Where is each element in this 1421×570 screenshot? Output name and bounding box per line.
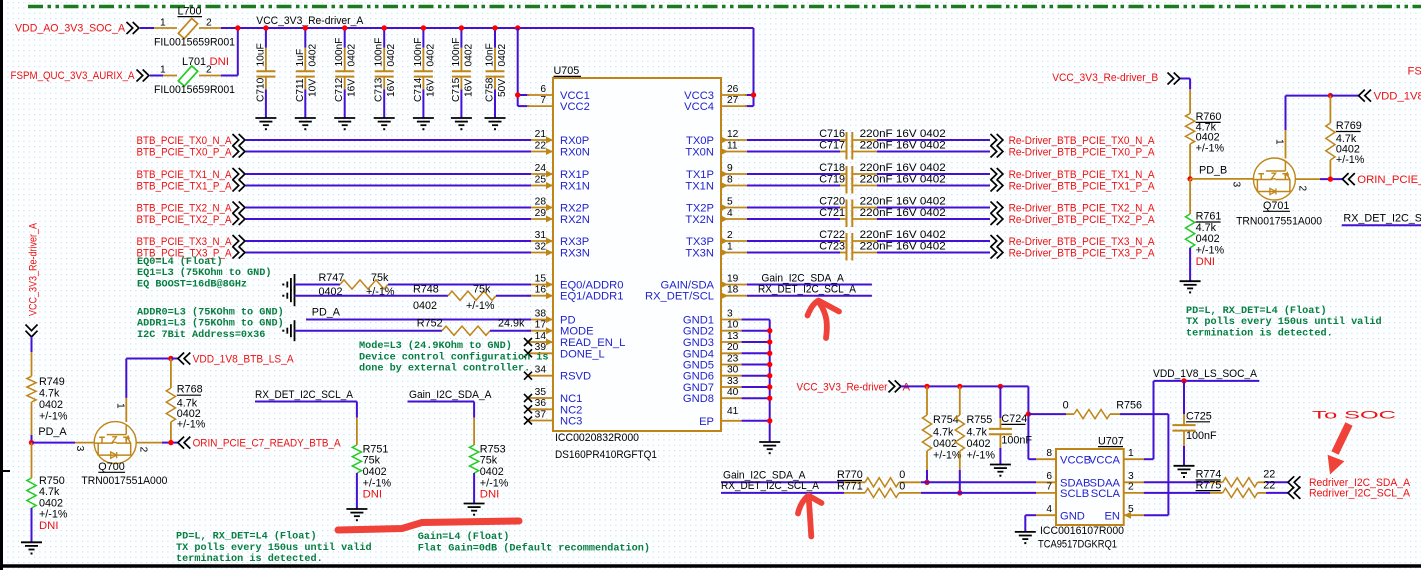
U705 pin 32 RX3N [527, 241, 590, 259]
U705 pin 10 GND2 [683, 320, 742, 338]
junction rail/C714 [421, 25, 426, 30]
svg-text:VCC2: VCC2 [560, 101, 590, 113]
svg-text:Re-Driver_BTB_PCIE_TX0_P_A: Re-Driver_BTB_PCIE_TX0_P_A [1009, 146, 1155, 158]
svg-text:220nF 16V 0402: 220nF 16V 0402 [860, 140, 946, 152]
svg-text:NC2: NC2 [560, 404, 582, 416]
wire R771 to SCLB [899, 492, 921, 494]
svg-text:Re-Driver_BTB_PCIE_TX2_N_A: Re-Driver_BTB_PCIE_TX2_N_A [1009, 202, 1155, 214]
svg-text:100nF: 100nF [451, 38, 462, 67]
U707 pin 3 SDAA [1090, 471, 1144, 489]
svg-text:RX1P: RX1P [560, 169, 589, 181]
wire to off-page VDD_1V8_BTB_LS_A [171, 358, 178, 360]
wire VDD_1V8_LS_SOC_A [1154, 380, 1260, 382]
wire to off-page VDD_1V8 [1330, 95, 1358, 97]
svg-text:READ_EN_L: READ_EN_L [560, 337, 625, 349]
svg-text:1: 1 [160, 65, 166, 76]
svg-text:Re-Driver_BTB_PCIE_TX0_N_A: Re-Driver_BTB_PCIE_TX0_N_A [1009, 135, 1155, 147]
svg-text:RX_DET/SCL: RX_DET/SCL [645, 291, 714, 303]
ground (rotated) for EQ1 [282, 285, 294, 306]
U705 pin 38 PD [527, 308, 576, 326]
svg-text:Q700: Q700 [98, 461, 124, 473]
U705 pin 18 RX_DET/SCL [645, 285, 747, 303]
svg-text:Flat Gain=0dB (Default recomme: Flat Gain=0dB (Default recommendation) [418, 542, 650, 554]
off-page connector Redriver_I2C_SCL_A [1288, 487, 1300, 499]
wire TX to C717 [747, 151, 840, 153]
svg-text:TRN0017551A000: TRN0017551A000 [1236, 215, 1322, 227]
svg-text:R747: R747 [319, 272, 345, 284]
svg-text:220nF 16V 0402: 220nF 16V 0402 [860, 196, 946, 208]
svg-text:done by external controller.: done by external controller. [359, 363, 530, 375]
svg-text:ICC0016107R000: ICC0016107R000 [1040, 525, 1124, 537]
ground under C758 [485, 118, 506, 130]
svg-text:220nF 16V 0402: 220nF 16V 0402 [860, 207, 946, 219]
svg-text:DONE_L: DONE_L [560, 348, 605, 360]
wire BTB_PCIE_TX3_P_A to U705 [246, 252, 532, 254]
junction R755 top [957, 384, 962, 389]
resistor R774 (22 ohm) [1196, 469, 1276, 487]
svg-text:RX_DET_I2C_SCL_A: RX_DET_I2C_SCL_A [255, 389, 354, 401]
svg-text:8: 8 [727, 174, 733, 185]
svg-text:RX_DET_I2C_SCL_A: RX_DET_I2C_SCL_A [758, 284, 857, 296]
svg-text:BTB_PCIE_TX0_P_A: BTB_PCIE_TX0_P_A [137, 146, 232, 158]
off-page connector VCC_3V3_Re-driver_B [1168, 73, 1180, 85]
svg-text:0402: 0402 [307, 44, 318, 67]
wire BTB_PCIE_TX3_N_A to U705 [246, 240, 532, 242]
U705 pin 40 GND8 [683, 387, 742, 405]
svg-text:DNI: DNI [39, 520, 58, 532]
svg-text:3: 3 [727, 308, 733, 319]
svg-text:GND4: GND4 [683, 348, 714, 360]
wire R748 to EQ1/ADDR1 [496, 295, 531, 297]
capacitor C720 [819, 196, 877, 216]
resistor R775 (22 ohm) [1196, 479, 1276, 497]
wire TX to C722 [747, 240, 840, 242]
svg-text:C710: C710 [255, 77, 266, 102]
ground under C725 [1174, 466, 1195, 478]
ground under C712 [334, 118, 355, 130]
svg-text:R769: R769 [1336, 120, 1362, 132]
junction rail/C758 [492, 25, 497, 30]
svg-text:GND1: GND1 [683, 315, 714, 327]
U705 pin 20 GND4 [683, 342, 742, 360]
off-page connector Re-Driver_BTB_PCIE_TX0_P_A [991, 146, 1003, 158]
resistor R771 (0 ohm) [844, 492, 865, 494]
svg-text:BTB_PCIE_TX1_N_A: BTB_PCIE_TX1_N_A [137, 169, 232, 181]
svg-text:TX1N: TX1N [685, 181, 714, 193]
wire TX to C720 [747, 207, 840, 209]
svg-text:EQ0=L4 (Float): EQ0=L4 (Float) [137, 256, 223, 268]
svg-text:100nF: 100nF [1186, 430, 1217, 442]
svg-text:BTB_PCIE_TX2_P_A: BTB_PCIE_TX2_P_A [137, 214, 232, 226]
svg-text:RSVD: RSVD [560, 371, 591, 383]
svg-text:+/-1%: +/-1% [1196, 245, 1225, 257]
svg-text:DNI: DNI [1196, 256, 1215, 268]
junction GND bus GND7 [767, 384, 772, 389]
svg-text:C721: C721 [819, 207, 845, 219]
svg-text:VCCA: VCCA [1089, 454, 1121, 466]
wire Q700 source to ORIN [136, 442, 162, 444]
svg-text:+/-1%: +/-1% [1196, 143, 1225, 155]
wire EQ1 [295, 295, 449, 297]
resistor R755 [959, 386, 961, 415]
off-page connector Re-Driver_BTB_PCIE_TX3_N_A [991, 235, 1003, 247]
svg-text:1: 1 [115, 403, 126, 409]
svg-text:R748: R748 [413, 283, 439, 295]
svg-text:37: 37 [535, 409, 547, 420]
svg-text:RX0P: RX0P [560, 135, 589, 147]
wire R756 to EN [1110, 413, 1120, 415]
junction PD_A [29, 440, 34, 445]
svg-text:PD_A: PD_A [38, 426, 67, 438]
resistor R770 (0 ohm) [844, 481, 865, 483]
junction VCC3 [751, 92, 756, 97]
wire to pin VCC1 [518, 94, 529, 96]
svg-text:6: 6 [540, 84, 546, 95]
svg-text:C714: C714 [413, 77, 424, 102]
svg-text:NC3: NC3 [560, 416, 582, 428]
svg-text:Redriver_I2C_SCL_A: Redriver_I2C_SCL_A [1309, 488, 1410, 500]
U707 pin 1 VCCA [1089, 448, 1144, 466]
svg-text:EQ1/ADDR1: EQ1/ADDR1 [560, 291, 623, 303]
wire Gain_I2C_SDA_A pulldown [408, 401, 475, 403]
off-page connector Re-Driver_BTB_PCIE_TX0_N_A [991, 134, 1003, 146]
svg-text:Gain_I2C_SDA_A: Gain_I2C_SDA_A [761, 272, 844, 284]
svg-text:27: 27 [727, 95, 739, 106]
svg-text:1: 1 [1274, 139, 1285, 145]
page border bottom [0, 564, 1421, 568]
resistor R749 [27, 376, 68, 423]
svg-text:0402: 0402 [425, 44, 436, 67]
svg-text:4.7k: 4.7k [39, 486, 60, 498]
wire VCC_3V3 bottom rail [901, 385, 1028, 387]
capacitor C723 [819, 241, 877, 261]
svg-text:RX3P: RX3P [560, 236, 589, 248]
svg-text:R771: R771 [837, 481, 863, 493]
note EQ settings [137, 256, 272, 290]
svg-text:PD=L, RX_DET=L4 (Float): PD=L, RX_DET=L4 (Float) [1186, 305, 1327, 317]
svg-text:35: 35 [535, 387, 547, 398]
off-page connector Re-Driver_BTB_PCIE_TX1_N_A [991, 168, 1003, 180]
svg-text:31: 31 [535, 230, 547, 241]
svg-text:NC1: NC1 [560, 393, 582, 405]
svg-text:34: 34 [535, 365, 547, 376]
ground under R751 [346, 509, 367, 521]
svg-text:SCLA: SCLA [1091, 488, 1121, 500]
wire riser L701 up to VCC rail [237, 27, 239, 76]
svg-text:24: 24 [535, 163, 547, 174]
svg-text:0402: 0402 [386, 44, 397, 67]
svg-text:L700: L700 [178, 6, 202, 18]
svg-text:4.7k: 4.7k [933, 427, 954, 439]
resistor R750 (DNI) [31, 443, 33, 478]
U705 pin 13 GND3 [683, 331, 742, 349]
svg-text:0402: 0402 [363, 466, 387, 478]
U705 pin 6 VCC1 [527, 84, 590, 102]
svg-text:19: 19 [727, 273, 739, 284]
svg-text:30: 30 [727, 365, 739, 376]
svg-text:R761: R761 [1196, 211, 1222, 223]
svg-text:32: 32 [535, 241, 547, 252]
junction R756 branch [1026, 411, 1031, 416]
U705 pin 24 RX1P [527, 163, 589, 181]
wire R769 to ORIN node [1329, 160, 1331, 179]
svg-text:38: 38 [535, 308, 547, 319]
svg-text:+/-1%: +/-1% [39, 411, 68, 423]
annotation arrow To SOC [1335, 424, 1349, 453]
svg-text:DS160PR410RGFTQ1: DS160PR410RGFTQ1 [555, 449, 657, 461]
junction GND bus GND3 [767, 339, 772, 344]
note Gain setting [418, 531, 650, 554]
resistor R753 (DNI) [470, 443, 509, 489]
svg-text:PD_A: PD_A [312, 307, 341, 319]
svg-text:DNI: DNI [210, 56, 229, 68]
svg-text:+/-1%: +/-1% [933, 449, 962, 461]
svg-text:16V: 16V [425, 79, 436, 97]
junction rail/C712 [342, 25, 347, 30]
svg-text:PD_B: PD_B [1199, 164, 1227, 176]
svg-text:RX3N: RX3N [560, 248, 590, 260]
svg-text:C722: C722 [819, 229, 845, 241]
off-page connector VDD_1V8_BTB_LS_A [178, 353, 190, 365]
wire Gain_I2C_SDA_A to R770 [721, 481, 844, 483]
junction rail/VCC1 branch [515, 25, 520, 30]
junction GND bus GND2 [767, 328, 772, 333]
svg-text:C718: C718 [819, 162, 845, 174]
junction C724 top [998, 384, 1003, 389]
svg-text:0402: 0402 [497, 44, 508, 67]
svg-text:C758: C758 [485, 77, 496, 102]
U707 pin 5 EN [1104, 504, 1143, 522]
svg-text:Re-Driver_BTB_PCIE_TX1_N_A: Re-Driver_BTB_PCIE_TX1_N_A [1009, 169, 1155, 181]
U705 pin 1 TX3N [685, 241, 747, 259]
wire to pin VCC4 [745, 105, 754, 107]
svg-text:220nF 16V 0402: 220nF 16V 0402 [860, 229, 946, 241]
svg-text:100nF: 100nF [413, 38, 424, 67]
ground under C714 [413, 118, 434, 130]
resistor R760 [1186, 111, 1225, 155]
U705 pin 26 VCC3 [684, 84, 747, 102]
svg-text:C719: C719 [819, 174, 845, 186]
capacitor C717 [819, 140, 877, 160]
svg-text:VDD_1V8_LS_SOC_A: VDD_1V8_LS_SOC_A [1153, 368, 1258, 380]
wire PD_B to Q701 gate [1190, 178, 1254, 180]
svg-text:+/-1%: +/-1% [466, 300, 495, 312]
svg-text:75k: 75k [371, 272, 389, 284]
wire Q701 source to ORIN [1295, 178, 1320, 180]
svg-text:7: 7 [1046, 482, 1052, 493]
wire BTB_PCIE_TX0_N_A to U705 [246, 139, 532, 141]
svg-text:75k: 75k [473, 283, 491, 295]
U705 pin 39 DONE_L (no connect) [524, 342, 605, 360]
svg-text:22: 22 [1263, 479, 1275, 491]
svg-text:ADDR1=L3 (75KOhm to GND): ADDR1=L3 (75KOhm to GND) [137, 318, 284, 330]
wire Gain_I2C_SDA_A [747, 284, 872, 286]
svg-text:75k: 75k [363, 455, 381, 467]
svg-text:U707: U707 [1098, 436, 1124, 448]
svg-text:22: 22 [535, 140, 547, 151]
off-page connector VDD_1V8 [1359, 90, 1371, 102]
svg-text:6: 6 [1046, 471, 1052, 482]
ground (rotated) for MODE [282, 320, 294, 341]
capacitor C758 [485, 28, 509, 118]
U705 pin 23 GND5 [683, 353, 742, 371]
capacitor C712 [334, 28, 358, 118]
svg-text:220nF 16V 0402: 220nF 16V 0402 [860, 162, 946, 174]
svg-text:VCC_3V3_Re-driver_B: VCC_3V3_Re-driver_B [1052, 72, 1158, 84]
svg-text:GND6: GND6 [683, 371, 714, 383]
svg-text:100nF: 100nF [1001, 434, 1032, 446]
off-page connector Re-Driver_BTB_PCIE_TX2_N_A [991, 202, 1003, 214]
wire R750 to ground [31, 508, 33, 542]
wire PD_A to U705 [306, 319, 531, 321]
wire SDAA to R774 [1144, 481, 1210, 483]
note PD polling (left) [176, 531, 372, 565]
svg-text:EQ BOOST=16dB@8GHz: EQ BOOST=16dB@8GHz [137, 278, 247, 290]
resistor R756 (0 ohm) [1028, 413, 1066, 415]
svg-text:16V: 16V [347, 79, 358, 97]
svg-text:Re-Driver_BTB_PCIE_TX2_P_A: Re-Driver_BTB_PCIE_TX2_P_A [1009, 214, 1155, 226]
wire C718 to off-page [877, 173, 990, 175]
svg-text:4: 4 [727, 208, 733, 219]
svg-text:3: 3 [1128, 471, 1134, 482]
inductor L700 [178, 18, 197, 38]
capacitor C711 [295, 28, 319, 118]
U707 pin 2 SCLA [1091, 482, 1144, 500]
svg-text:+/-1%: +/-1% [39, 509, 68, 521]
U705 pin 27 VCC4 [684, 95, 747, 113]
ground for U705 GND bus [759, 442, 780, 454]
capacitor C721 [819, 207, 877, 227]
U705 pin 35 NC1 (no connect) [524, 387, 582, 405]
svg-text:1: 1 [727, 241, 733, 252]
junction GND bus GND8 [767, 396, 772, 401]
ground under R753 [464, 504, 485, 516]
svg-text:16V: 16V [386, 79, 397, 97]
off-page connector BTB_PCIE_TX2_P_A [233, 213, 245, 225]
wire C717 to off-page [877, 151, 990, 153]
svg-text:0402: 0402 [347, 44, 358, 67]
transistor Q700 [94, 422, 136, 464]
svg-text:EQ0/ADDR0: EQ0/ADDR0 [560, 280, 623, 292]
svg-text:26: 26 [727, 84, 739, 95]
svg-text:C723: C723 [819, 241, 845, 253]
svg-text:RX_DET_I2C_SCL_A: RX_DET_I2C_SCL_A [721, 480, 820, 492]
U705 pin 37 NC3 (no connect) [524, 409, 582, 427]
wire L701 to rail riser [199, 75, 221, 77]
svg-text:220nF 16V 0402: 220nF 16V 0402 [860, 128, 946, 140]
U707 pin 4 GND [1036, 504, 1085, 522]
svg-text:FIL0015659R001: FIL0015659R001 [154, 84, 235, 96]
junction rail/C710 [263, 25, 268, 30]
svg-text:C713: C713 [374, 77, 385, 102]
wire RX_DET_I2C_SCL_A to R771 [721, 492, 844, 494]
off-page connector VCC_3V3_Re-driver_A (bottom) [889, 380, 901, 392]
wire TX to C721 [747, 218, 840, 220]
svg-text:EP: EP [699, 416, 714, 428]
svg-text:16: 16 [535, 285, 547, 296]
junction rail/C711 [303, 25, 308, 30]
svg-text:15: 15 [535, 273, 547, 284]
capacitor C713 [374, 28, 398, 118]
wire VDD_1V8 down to U707 VCCA [1153, 381, 1155, 459]
wire TX to C718 [747, 173, 840, 175]
capacitor C719 [819, 174, 877, 194]
U705 pin 29 RX2N [527, 208, 590, 226]
svg-text:TX2P: TX2P [686, 203, 714, 215]
wire BTB_PCIE_TX0_P_A to U705 [246, 151, 532, 153]
svg-text:20: 20 [727, 342, 739, 353]
svg-text:100nF: 100nF [334, 38, 345, 67]
svg-text:C715: C715 [451, 77, 462, 102]
svg-text:0402: 0402 [39, 497, 63, 509]
svg-text:BTB_PCIE_TX0_N_A: BTB_PCIE_TX0_N_A [137, 135, 232, 147]
off-page connector Re-Driver_BTB_PCIE_TX2_P_A [991, 213, 1003, 225]
svg-text:5: 5 [1128, 504, 1134, 515]
wire R753 to ground [473, 473, 475, 504]
svg-text:C725: C725 [1186, 411, 1212, 423]
ground under R761 [1180, 281, 1201, 293]
svg-text:R775: R775 [1196, 479, 1222, 491]
U705 pin 12 TX0P [686, 129, 747, 147]
svg-text:21: 21 [535, 129, 547, 140]
svg-text:C717: C717 [819, 140, 845, 152]
svg-text:ICC0020832R000: ICC0020832R000 [555, 432, 639, 444]
off-page connector BTB_PCIE_TX1_P_A [233, 180, 245, 192]
svg-text:17: 17 [535, 320, 547, 331]
svg-text:220nF 16V 0402: 220nF 16V 0402 [860, 241, 946, 253]
svg-text:12: 12 [727, 129, 739, 140]
U705 pin 22 RX0N [527, 140, 590, 158]
off-page connector BTB_PCIE_TX1_N_A [233, 168, 245, 180]
svg-text:RX0N: RX0N [560, 147, 590, 159]
svg-text:100nF: 100nF [374, 38, 385, 67]
svg-text:termination is detected.: termination is detected. [176, 553, 323, 565]
svg-text:23: 23 [727, 353, 739, 364]
note Mode settings [359, 340, 549, 375]
wire L700 to VCC rail [199, 27, 221, 29]
off-page connector Re-Driver_BTB_PCIE_TX1_P_A [991, 180, 1003, 192]
svg-text:1: 1 [160, 18, 166, 29]
svg-text:0402: 0402 [463, 44, 474, 67]
svg-text:Mode=L3 (24.9KOhm to GND): Mode=L3 (24.9KOhm to GND) [359, 340, 512, 352]
wire VCC_3V3_Re-driver_A rail [221, 27, 754, 29]
svg-text:8: 8 [1046, 448, 1052, 459]
svg-text:L701: L701 [182, 56, 206, 68]
svg-text:18: 18 [727, 285, 739, 296]
junction ORIN (Q701) [1328, 176, 1333, 181]
off-page connector FSPM_QUC_3V3_AURIX_A [137, 70, 149, 82]
U705 pin 5 TX2P [686, 196, 747, 214]
wire down to R749 [31, 337, 33, 352]
wire U707 GND to ground [1025, 514, 1036, 516]
svg-text:9: 9 [727, 163, 733, 174]
resistor R754 [926, 386, 928, 415]
U705 pin 3 GND1 [683, 308, 742, 326]
svg-text:BTB_PCIE_TX3_N_A: BTB_PCIE_TX3_N_A [137, 236, 232, 248]
U705 pin 31 RX3P [527, 230, 589, 248]
svg-text:75k: 75k [480, 455, 498, 467]
svg-text:Gain_I2C_SDA_A: Gain_I2C_SDA_A [409, 389, 492, 401]
svg-text:GND: GND [1060, 510, 1085, 522]
junction rail/C715 [459, 25, 464, 30]
U707 pin 6 SDAB [1036, 471, 1090, 489]
svg-text:R751: R751 [363, 443, 389, 455]
resistor R751 (DNI) [352, 443, 391, 489]
svg-text:TX3P: TX3P [686, 236, 714, 248]
svg-text:VCC_3V3_Re-driver_A: VCC_3V3_Re-driver_A [256, 15, 364, 27]
svg-text:BTB_PCIE_TX2_N_A: BTB_PCIE_TX2_N_A [137, 202, 232, 214]
ground under C713 [374, 118, 395, 130]
